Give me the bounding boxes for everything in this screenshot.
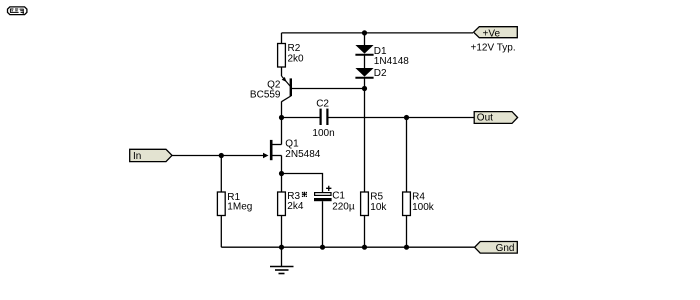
wire bottom rail [221, 246, 474, 248]
wire Q2 base to diode junction [291, 88, 365, 90]
diode D2 [355, 68, 387, 79]
svg-text:10k: 10k [370, 202, 387, 213]
wire out line right [327, 117, 474, 119]
node ground rail / R3 [279, 245, 284, 250]
svg-text:2N5484: 2N5484 [285, 149, 320, 160]
svg-text:BC559: BC559 [250, 90, 281, 101]
node Q1 source junction [279, 171, 284, 176]
node ground rail / R5 [362, 245, 367, 250]
capacitor C1 [314, 186, 355, 247]
node Q2 base / diode junction [362, 86, 367, 91]
node ground rail / R4 [404, 245, 409, 250]
svg-text:1N4148: 1N4148 [374, 56, 409, 67]
wire D2 to base node [364, 78, 366, 89]
svg-text:D2: D2 [374, 68, 387, 79]
diode D1 [355, 33, 409, 67]
svg-text:1Meg: 1Meg [227, 202, 252, 213]
svg-text:220µ: 220µ [332, 201, 355, 212]
node R4 top junction [404, 115, 409, 120]
svg-text:Out: Out [477, 112, 493, 123]
+Ve tag [474, 27, 518, 40]
node R1 top [219, 153, 224, 158]
transistor Q1 [263, 118, 321, 174]
wire top rail [282, 32, 474, 34]
capacitor C2 [312, 98, 334, 139]
node Q2 collector / out line [279, 115, 284, 120]
node top rail / diode column junction [362, 30, 367, 35]
svg-text:100n: 100n [312, 128, 334, 139]
svg-text:Q1: Q1 [285, 138, 299, 149]
svg-text:+Ve: +Ve [483, 28, 501, 39]
In tag [130, 149, 172, 162]
svg-text:2k4: 2k4 [287, 201, 304, 212]
wire source node to C1 column [282, 174, 323, 193]
svg-text:+12V Typ.: +12V Typ. [471, 43, 516, 54]
wire diode column through out line to R5 [364, 89, 366, 193]
svg-text:C2: C2 [316, 98, 329, 109]
Out tag [474, 112, 517, 124]
resistor R3 [278, 174, 307, 248]
node ground rail / C1 [320, 245, 325, 250]
svg-text:2k0: 2k0 [288, 53, 305, 64]
resistor R1 [217, 156, 252, 248]
ground [270, 247, 294, 274]
svg-text:Gnd: Gnd [496, 243, 515, 254]
wire In to Q1 gate [172, 155, 265, 157]
ESP logo [8, 7, 27, 15]
svg-text:In: In [133, 151, 141, 162]
resistor R4 [403, 118, 435, 248]
resistor R2 [278, 33, 304, 67]
svg-text:100k: 100k [412, 202, 435, 213]
svg-text:C1: C1 [332, 191, 345, 202]
Gnd tag [475, 242, 518, 255]
transistor Q2 [250, 67, 291, 118]
wire D1-D2 [364, 55, 366, 68]
resistor R5 [361, 192, 388, 248]
wire out line left [282, 117, 321, 119]
